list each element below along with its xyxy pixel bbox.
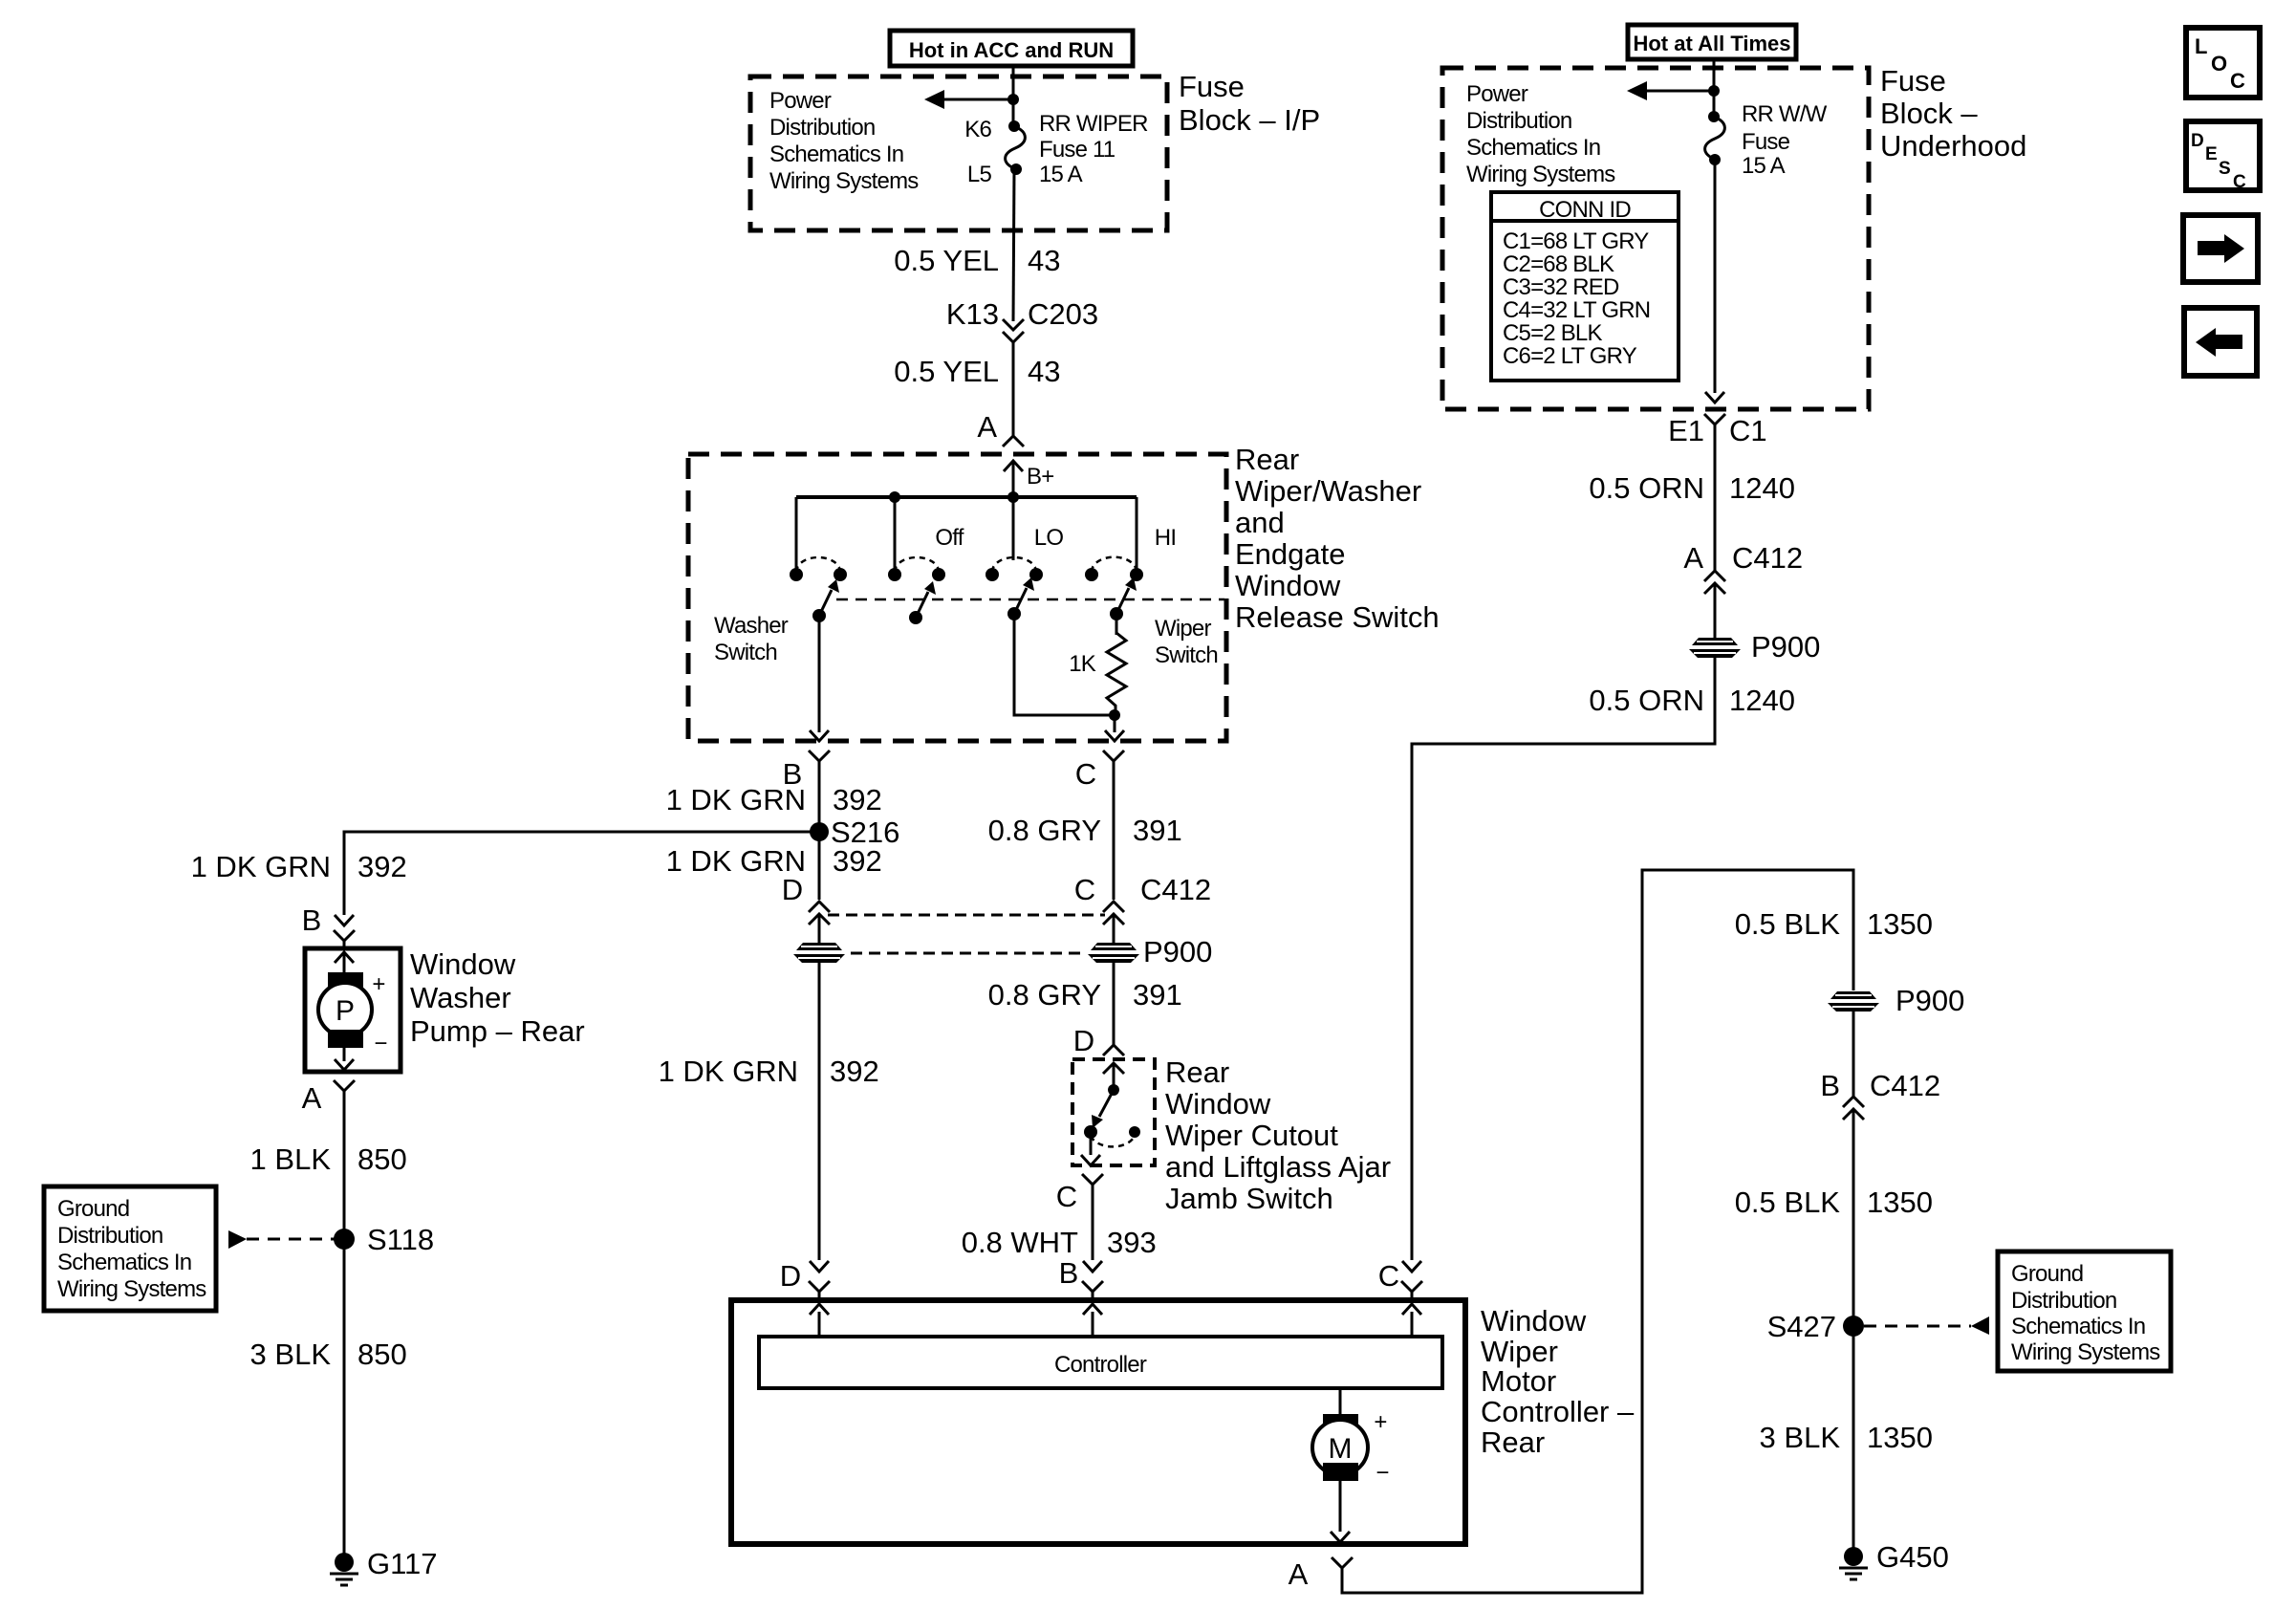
label Window Washer Pump - Rear (410, 947, 585, 1048)
svg-text:A: A (302, 1081, 322, 1115)
wire fuse output down to C203 (1013, 169, 1014, 321)
svg-text:393: 393 (1107, 1226, 1157, 1259)
wire dashed reference link from S427 (1864, 1316, 1989, 1335)
svg-text:Distribution: Distribution (769, 115, 875, 141)
wire motor output arrow to pin A (1331, 1481, 1350, 1542)
svg-text:Off: Off (935, 525, 964, 551)
switch assembly dashed enclosure: Rear Wiper/Washer and Endgate Window Release Switch (688, 454, 1226, 741)
svg-text:C4=32 LT GRN: C4=32 LT GRN (1503, 297, 1650, 323)
svg-text:392: 392 (830, 1055, 879, 1088)
jamb switch contact arm and contacts (1081, 1063, 1140, 1165)
wire label 3 BLK 850 (250, 1338, 407, 1371)
svg-text:C: C (1074, 873, 1095, 906)
wire left down to grommet (818, 914, 821, 943)
connector pins E1 C1 (1668, 414, 1767, 571)
connector pin D of controller (780, 1259, 830, 1300)
svg-text:A: A (1289, 1557, 1309, 1591)
svg-text:1 BLK: 1 BLK (250, 1142, 332, 1176)
svg-text:Controller: Controller (1054, 1352, 1147, 1378)
label Window Wiper Motor Controller - Rear (1481, 1304, 1635, 1459)
wire C203 to switch connector A (1012, 342, 1015, 436)
wire B+ entry arrow inside switch box (1004, 461, 1023, 497)
label Rear Window Wiper Cutout and Liftglass Ajar Jamb Switch (1165, 1055, 1391, 1215)
svg-text:P: P (336, 995, 355, 1027)
wire internal input arrow C (1402, 1304, 1421, 1337)
svg-text:C1=68 LT GRY: C1=68 LT GRY (1503, 228, 1649, 254)
svg-text:850: 850 (357, 1338, 407, 1371)
jamb switch dashed enclosure (1072, 1059, 1155, 1165)
node bus junction at Off drop (889, 491, 900, 503)
node junction on feed wire (1007, 94, 1019, 105)
svg-text:Block –: Block – (1880, 97, 1978, 130)
grommet P900 (left) (793, 943, 845, 963)
wire label 3 BLK 1350 (1760, 1421, 1933, 1454)
mechanical linkage dashed line (836, 598, 1224, 601)
svg-text:+: + (372, 971, 384, 997)
svg-text:0.8 GRY: 0.8 GRY (988, 978, 1101, 1012)
Off switch contacts and dashed arc (888, 557, 945, 581)
svg-text:S: S (2219, 159, 2231, 179)
wire from Hot in ACC and RUN into fuse block (1012, 66, 1015, 126)
wire drop to HI position contact (1136, 497, 1138, 570)
svg-text:392: 392 (833, 844, 882, 878)
wire label 0.5 YEL 43 (second) (894, 355, 1060, 388)
svg-text:Ground: Ground (2011, 1261, 2083, 1287)
connector pin C below switch box (1075, 751, 1124, 900)
wire internal B+ bus (796, 495, 1137, 499)
svg-text:0.8 GRY: 0.8 GRY (988, 814, 1101, 847)
svg-text:Schematics In: Schematics In (2011, 1314, 2145, 1339)
label RR W/W Fuse 15 A (1742, 101, 1828, 179)
svg-text:Rear: Rear (1481, 1425, 1545, 1459)
wire dashed connector link C412 (828, 914, 1105, 917)
svg-text:L5: L5 (967, 162, 992, 187)
svg-text:+: + (1374, 1409, 1386, 1435)
svg-text:D: D (1073, 1024, 1094, 1057)
svg-text:Pump – Rear: Pump – Rear (410, 1014, 585, 1048)
svg-text:0.5 ORN: 0.5 ORN (1589, 471, 1704, 505)
svg-text:1350: 1350 (1867, 907, 1933, 941)
svg-text:Underhood: Underhood (1880, 129, 2026, 163)
wire label 0.8 WHT 393 (962, 1226, 1157, 1259)
svg-text:Rear: Rear (1165, 1055, 1229, 1089)
svg-text:S427: S427 (1767, 1310, 1836, 1343)
svg-text:1 DK GRN: 1 DK GRN (191, 850, 331, 883)
node splice S118 (334, 1223, 434, 1256)
wire internal input arrow D (810, 1304, 829, 1337)
svg-text:Fuse 11: Fuse 11 (1039, 137, 1116, 163)
node splice S216 (810, 816, 899, 849)
wire dashed reference link to S118 (228, 1230, 335, 1249)
wire internal input arrow B (1083, 1304, 1102, 1337)
svg-text:1240: 1240 (1729, 684, 1795, 717)
svg-text:Schematics In: Schematics In (57, 1250, 191, 1275)
wire dashed grommet link (851, 952, 1084, 955)
svg-text:A: A (977, 410, 997, 444)
svg-text:Window: Window (410, 947, 516, 981)
svg-text:B: B (302, 903, 322, 937)
ground G117 (330, 1547, 438, 1585)
svg-text:Wiring Systems: Wiring Systems (2011, 1339, 2160, 1365)
svg-text:D: D (780, 1259, 801, 1293)
connector pin C of jamb switch (1056, 1174, 1103, 1260)
svg-text:Fuse: Fuse (1880, 64, 1946, 98)
ground note box (left): Ground Distribution Schematics In Wiring Systems (44, 1186, 216, 1311)
grommet P900 (orange wire) (1689, 630, 1820, 664)
svg-text:43: 43 (1028, 244, 1060, 277)
svg-text:0.5 YEL: 0.5 YEL (894, 244, 999, 277)
nav icon LOC (2186, 28, 2260, 98)
node junction on feed wire (right) (1708, 85, 1720, 97)
resistor 1K (1107, 614, 1126, 715)
svg-text:Distribution: Distribution (2011, 1288, 2116, 1314)
svg-text:Wiring Systems: Wiring Systems (57, 1276, 206, 1302)
HI movable contact arm (1110, 577, 1137, 620)
svg-text:M: M (1329, 1433, 1353, 1465)
wire label 0.5 YEL 43 (894, 244, 1060, 277)
controller inner block (759, 1337, 1442, 1388)
svg-text:A: A (1683, 541, 1703, 575)
svg-text:−: − (374, 1031, 386, 1056)
fuse block I/P dashed enclosure (750, 76, 1167, 230)
pump internal arrow and motor symbol (318, 952, 387, 1070)
node resistor/LO junction (1109, 709, 1120, 721)
svg-text:Switch: Switch (1155, 642, 1218, 668)
svg-text:C5=2 BLK: C5=2 BLK (1503, 320, 1602, 346)
label Rear Wiper/Washer and Endgate Window Release Switch (1235, 443, 1440, 634)
wire right grommet down to cutout switch (1113, 963, 1116, 1045)
svg-text:15 A: 15 A (1039, 162, 1083, 187)
svg-text:L: L (2195, 34, 2207, 58)
svg-text:B: B (1820, 1069, 1840, 1102)
svg-text:K6: K6 (964, 117, 991, 142)
svg-text:3 BLK: 3 BLK (250, 1338, 332, 1371)
svg-text:Switch: Switch (714, 640, 777, 665)
svg-text:C412: C412 (1140, 873, 1211, 906)
washer switch movable contact arm (812, 579, 839, 622)
svg-text:C: C (1056, 1180, 1077, 1213)
svg-text:Wiring Systems: Wiring Systems (1466, 162, 1615, 187)
wire label 1 DK GRN 392 (row 3) (659, 1055, 879, 1088)
svg-text:1350: 1350 (1867, 1186, 1933, 1219)
wire right down from grommet (1113, 914, 1116, 943)
nav icon arrow left (2184, 308, 2257, 376)
label Wiper Switch (1155, 616, 1218, 668)
svg-text:Schematics In: Schematics In (1466, 135, 1600, 161)
svg-text:K13: K13 (946, 297, 999, 331)
label Fuse Block - Underhood (1880, 64, 2026, 163)
svg-text:C6=2 LT GRY: C6=2 LT GRY (1503, 343, 1637, 369)
connector C412 pin B (1820, 1069, 1940, 1552)
svg-text:Wiper/Washer: Wiper/Washer (1235, 474, 1421, 508)
wire arrow to power distribution (right) (1627, 81, 1714, 100)
wire drop to washer switch fixed contact (795, 497, 798, 570)
svg-text:Block – I/P: Block – I/P (1179, 103, 1320, 137)
ground note box (right): Ground Distribution Schematics In Wiring Systems (1998, 1251, 2171, 1371)
grommet P900 (ground wire) (1828, 984, 1964, 1017)
svg-text:RR WIPER: RR WIPER (1039, 111, 1148, 137)
svg-text:Distribution: Distribution (1466, 108, 1571, 134)
grommet P900 (right) (1088, 935, 1212, 968)
label Fuse Block - I/P (1179, 70, 1320, 137)
svg-text:0.5 BLK: 0.5 BLK (1735, 1186, 1841, 1219)
svg-text:0.8 WHT: 0.8 WHT (962, 1226, 1078, 1259)
svg-text:C2=68 BLK: C2=68 BLK (1503, 251, 1614, 277)
wire label 1 DK GRN 392 (row 2) (666, 844, 882, 878)
wire stem to LO position (1012, 497, 1015, 560)
LO switch contacts and dashed arc (986, 557, 1043, 581)
svg-text:G117: G117 (367, 1547, 438, 1580)
svg-text:B+: B+ (1027, 464, 1053, 490)
wire label 0.8 GRY 391 (row 1) (988, 814, 1182, 847)
svg-text:Ground: Ground (57, 1196, 129, 1222)
svg-text:43: 43 (1028, 355, 1060, 388)
nav icon DESC (2186, 121, 2260, 192)
connector pin A below controller (1289, 1557, 1353, 1591)
svg-text:Fuse: Fuse (1742, 129, 1790, 155)
svg-text:Release Switch: Release Switch (1235, 600, 1440, 634)
svg-text:Jamb Switch: Jamb Switch (1165, 1182, 1333, 1215)
connector pin A of washer pump (302, 1080, 355, 1554)
connector C412 pin D (left wire) (782, 873, 830, 925)
svg-text:C412: C412 (1870, 1069, 1940, 1102)
svg-text:E: E (2205, 144, 2218, 164)
svg-text:−: − (1375, 1460, 1388, 1486)
svg-text:1K: 1K (1069, 651, 1096, 677)
svg-text:O: O (2211, 52, 2227, 76)
wire from Hot at All Times into fuse block (1713, 59, 1716, 117)
note Power Distribution Schematics In Wiring Systems (left fuse block) (769, 88, 919, 194)
svg-text:Motor: Motor (1481, 1364, 1556, 1398)
svg-text:Window: Window (1481, 1304, 1587, 1338)
svg-text:C: C (2233, 172, 2246, 192)
Off movable contact arm (909, 581, 936, 624)
connector C203 pin K13 (in-line, down) (946, 297, 1098, 342)
svg-text:Power: Power (769, 88, 832, 114)
node splice S427 (1767, 1310, 1864, 1343)
svg-text:and: and (1235, 506, 1285, 539)
svg-text:B: B (1059, 1256, 1079, 1290)
svg-text:Hot at All Times: Hot at All Times (1633, 32, 1790, 55)
svg-text:C: C (2230, 69, 2245, 93)
connector pin C of controller (1378, 1259, 1422, 1300)
label Washer Switch (714, 613, 789, 665)
controller U1 outer box: Window Wiper Motor Controller - Rear (731, 1300, 1465, 1544)
motor M1 rear wiper motor (1312, 1388, 1389, 1486)
label RR WIPER Fuse 11 15 A (1039, 111, 1148, 187)
washer switch contacts and dashed arc (790, 557, 847, 581)
wire grommet down and across to controller pin C (1412, 658, 1715, 1260)
power label box "Hot in ACC and RUN" (890, 31, 1133, 66)
LO movable contact arm (1007, 577, 1034, 620)
wire label 1 BLK 850 (250, 1142, 407, 1176)
svg-text:Wiper: Wiper (1481, 1335, 1558, 1368)
svg-text:C203: C203 (1028, 297, 1098, 331)
wire drop to Off position contact (894, 497, 897, 570)
svg-text:Hot in ACC and RUN: Hot in ACC and RUN (909, 38, 1114, 62)
svg-text:391: 391 (1133, 814, 1182, 847)
fuse F11 RR WIPER Fuse 11 15 A (1006, 120, 1026, 175)
svg-text:1 DK GRN: 1 DK GRN (666, 783, 806, 816)
connector pin B below switch box (783, 751, 830, 900)
wire label 1 DK GRN 392 (row 1) (666, 783, 882, 816)
wire label 0.5 BLK 1350 (row 1) (1735, 907, 1933, 941)
svg-text:Window: Window (1165, 1087, 1271, 1120)
svg-text:Washer: Washer (410, 981, 511, 1014)
ground G450 (1839, 1540, 1949, 1579)
svg-text:Wiper Cutout: Wiper Cutout (1165, 1119, 1338, 1152)
svg-text:CONN ID: CONN ID (1539, 197, 1631, 223)
wire label 0.5 BLK 1350 (row 2) (1735, 1186, 1933, 1219)
svg-text:3 BLK: 3 BLK (1760, 1421, 1841, 1454)
washer pump P1 box: Window Washer Pump - Rear (305, 948, 401, 1072)
svg-text:D: D (2191, 131, 2204, 151)
svg-text:1350: 1350 (1867, 1421, 1933, 1454)
svg-text:0.5 YEL: 0.5 YEL (894, 355, 999, 388)
svg-text:Wiring Systems: Wiring Systems (769, 168, 919, 194)
svg-text:D: D (782, 873, 803, 906)
wire motor ground return path (1342, 870, 1853, 1593)
svg-text:LO: LO (1034, 525, 1064, 551)
svg-text:1240: 1240 (1729, 471, 1795, 505)
CONN ID table (1491, 192, 1679, 381)
wire wiper output arrow to pin C (1105, 715, 1124, 741)
svg-text:E1: E1 (1668, 414, 1704, 447)
wire fuse output down with exit arrow (1705, 160, 1724, 402)
svg-text:Washer: Washer (714, 613, 789, 639)
note Power Distribution Schematics In Wiring Systems (right fuse block) (1466, 81, 1615, 187)
svg-text:S118: S118 (367, 1223, 434, 1256)
connector C412 pin A (1683, 541, 1803, 638)
svg-text:P900: P900 (1143, 935, 1212, 968)
wire label 0.8 GRY 391 (row 2) (988, 978, 1182, 1012)
svg-text:C3=32 RED: C3=32 RED (1503, 274, 1619, 300)
svg-text:HI: HI (1155, 525, 1176, 551)
wire LO output down and right to resistor junction (1014, 614, 1115, 715)
connector C412 pin C (right wire) (1074, 873, 1211, 925)
svg-text:850: 850 (357, 1142, 407, 1176)
svg-text:Distribution: Distribution (57, 1223, 162, 1249)
wire label 1 DK GRN 392 (pump feed) (191, 850, 407, 883)
svg-text:C: C (1075, 757, 1096, 791)
wire branch from S216 to washer pump (344, 832, 819, 915)
svg-text:G450: G450 (1876, 1540, 1949, 1574)
power label box "Hot at All Times" (1628, 25, 1796, 59)
connector pin B of controller (1059, 1256, 1103, 1300)
node bus junction at B+ feed (1007, 491, 1019, 503)
svg-text:15 A: 15 A (1742, 153, 1786, 179)
connector pin A of rear wiper/washer switch (977, 410, 1024, 446)
svg-text:Controller –: Controller – (1481, 1395, 1635, 1428)
svg-text:C: C (1378, 1259, 1399, 1293)
svg-text:and Liftglass Ajar: and Liftglass Ajar (1165, 1150, 1391, 1184)
svg-text:P900: P900 (1751, 630, 1820, 664)
svg-text:P900: P900 (1895, 984, 1964, 1017)
wire arrow to power distribution (left) (924, 90, 1013, 109)
svg-text:Schematics In: Schematics In (769, 141, 903, 167)
svg-text:Fuse: Fuse (1179, 70, 1245, 103)
svg-text:392: 392 (833, 783, 882, 816)
fuse block underhood dashed enclosure (1442, 68, 1869, 409)
HI switch contacts and dashed arc (1085, 557, 1143, 581)
svg-text:Window: Window (1235, 569, 1341, 602)
svg-text:C412: C412 (1732, 541, 1803, 575)
nav icon arrow right (2183, 215, 2258, 282)
svg-text:Endgate: Endgate (1235, 537, 1346, 571)
svg-text:Rear: Rear (1235, 443, 1299, 476)
svg-text:0.5 ORN: 0.5 ORN (1589, 684, 1704, 717)
connector pin B of washer pump (302, 903, 355, 948)
svg-text:391: 391 (1133, 978, 1182, 1012)
svg-text:Power: Power (1466, 81, 1528, 107)
fuse RR W/W Fuse 15 A (1705, 111, 1725, 165)
wire label 0.5 ORN 1240 (1589, 471, 1795, 505)
svg-text:392: 392 (357, 850, 407, 883)
svg-text:0.5 BLK: 0.5 BLK (1735, 907, 1841, 941)
wire label 0.5 ORN 1240 (second) (1589, 684, 1795, 717)
wire washer switch output with arrow to pin B (810, 616, 829, 741)
svg-text:1 DK GRN: 1 DK GRN (659, 1055, 798, 1088)
wire left grommet to controller pin D (818, 963, 821, 1260)
connector pin D of jamb switch (1073, 1024, 1124, 1074)
svg-text:RR W/W: RR W/W (1742, 101, 1828, 127)
wire grommet down to connector C412 pin B (1852, 1012, 1855, 1097)
svg-text:C1: C1 (1729, 414, 1767, 447)
svg-text:Wiper: Wiper (1155, 616, 1211, 642)
